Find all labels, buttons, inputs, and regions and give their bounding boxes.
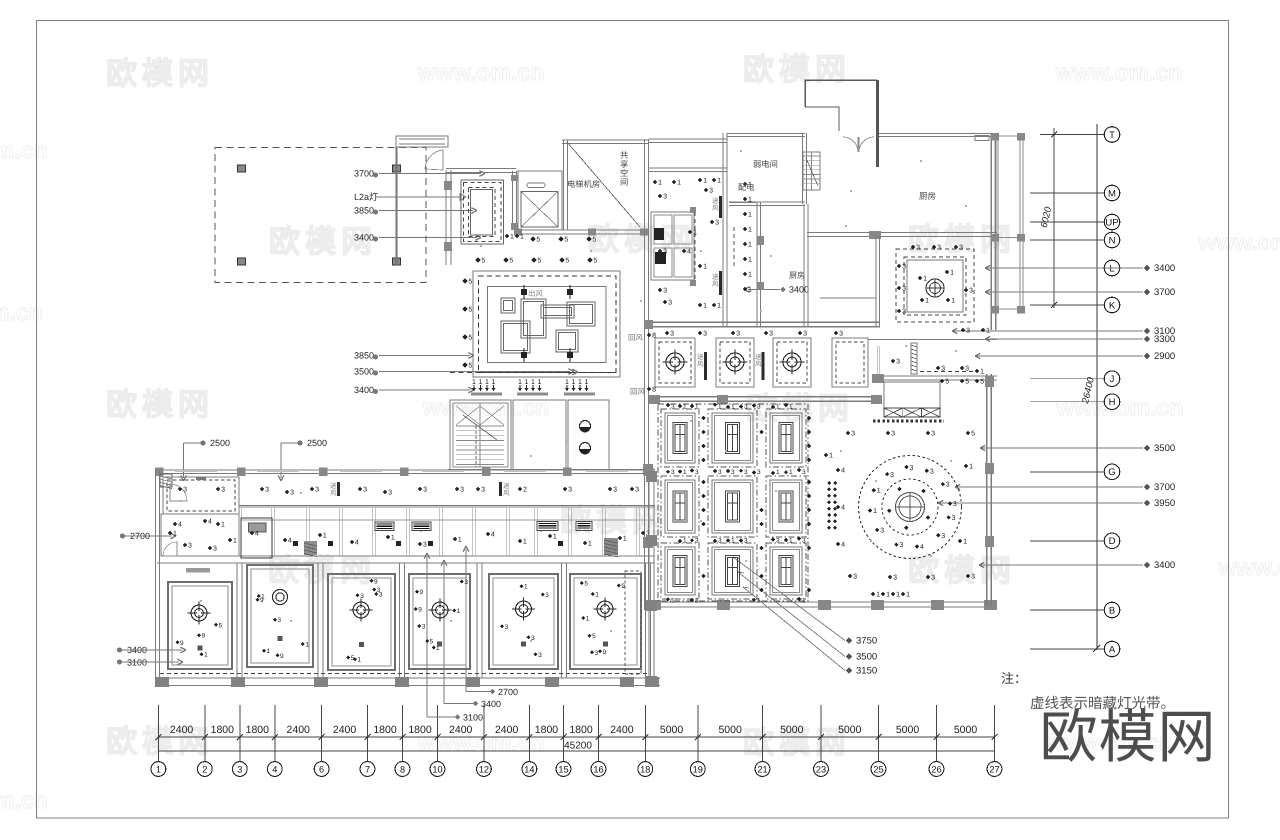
svg-text:3850: 3850 — [354, 206, 374, 216]
svg-text:3: 3 — [802, 469, 806, 476]
svg-text:3: 3 — [899, 542, 903, 549]
svg-text:1: 1 — [671, 598, 675, 605]
svg-text:3: 3 — [545, 592, 549, 599]
svg-text:5: 5 — [468, 279, 472, 286]
svg-text:1: 1 — [472, 379, 476, 386]
arrows column — [827, 481, 831, 485]
svg-text:UP: UP — [1105, 217, 1118, 228]
svg-text:1800: 1800 — [408, 724, 432, 736]
svg-text:3: 3 — [930, 468, 934, 475]
svg-text:1: 1 — [789, 404, 793, 411]
svg-text:9: 9 — [418, 607, 422, 614]
svg-text:B: B — [1109, 605, 1115, 616]
弱电间 block — [727, 133, 805, 135]
svg-text:3: 3 — [703, 331, 707, 338]
svg-text:5: 5 — [468, 363, 472, 370]
svg-text:3: 3 — [744, 404, 748, 411]
svg-text:5: 5 — [537, 258, 541, 265]
svg-text:9: 9 — [260, 597, 264, 604]
hatched corner block — [160, 474, 172, 487]
svg-text:5: 5 — [536, 237, 540, 244]
svg-text:1: 1 — [829, 453, 833, 460]
svg-text:3: 3 — [953, 501, 957, 508]
svg-text:9: 9 — [280, 653, 284, 660]
svg-text:3: 3 — [422, 624, 426, 631]
right rooms A/B — [868, 339, 997, 341]
svg-text:3: 3 — [802, 538, 806, 545]
wing E wall to banquet — [648, 471, 650, 686]
svg-text:1: 1 — [588, 541, 592, 548]
svg-text:1: 1 — [748, 287, 752, 294]
corridor E of service — [756, 202, 758, 326]
svg-text:出风: 出风 — [528, 289, 543, 298]
double swing door — [843, 137, 858, 152]
svg-text:间: 间 — [620, 177, 628, 187]
svg-text:3: 3 — [769, 331, 773, 338]
banquet leaders 3750/3500/3150 — [733, 557, 845, 641]
svg-text:1: 1 — [703, 178, 707, 185]
svg-text:8: 8 — [652, 333, 656, 340]
svg-text:风: 风 — [503, 489, 510, 497]
svg-text:3: 3 — [635, 487, 639, 494]
right wall of kitchen block — [990, 133, 992, 330]
svg-text:1: 1 — [553, 534, 557, 541]
svg-text:3: 3 — [423, 487, 427, 494]
svg-text:3: 3 — [668, 300, 672, 307]
svg-text:3: 3 — [671, 404, 675, 411]
svg-text:3: 3 — [971, 574, 975, 581]
svg-text:1: 1 — [789, 538, 793, 545]
svg-text:2400: 2400 — [333, 724, 357, 736]
svg-text:om.cn: om.cn — [0, 137, 48, 163]
wing bottom wall — [155, 677, 660, 679]
svg-text:3: 3 — [290, 490, 294, 497]
svg-text:3: 3 — [880, 528, 884, 535]
svg-text:3: 3 — [237, 764, 242, 774]
svg-text:1: 1 — [233, 538, 237, 545]
fan room — [896, 249, 974, 322]
svg-text:1: 1 — [524, 584, 528, 591]
svg-text:1800: 1800 — [569, 724, 593, 736]
svg-text:3: 3 — [736, 331, 740, 338]
svg-text:5: 5 — [468, 335, 472, 342]
svg-text:5: 5 — [965, 379, 969, 386]
svg-text:4: 4 — [208, 519, 212, 526]
svg-text:3850: 3850 — [354, 351, 374, 361]
svg-text:1: 1 — [204, 652, 208, 659]
wall below upper block — [514, 229, 648, 231]
svg-text:16: 16 — [593, 764, 603, 774]
svg-text:4: 4 — [272, 764, 277, 774]
svg-text:1800: 1800 — [535, 724, 559, 736]
svg-text:3: 3 — [890, 472, 894, 479]
svg-text:25: 25 — [873, 764, 883, 774]
svg-text:3: 3 — [931, 575, 935, 582]
trellis recess — [884, 382, 940, 417]
wall under stair block — [448, 469, 655, 471]
right colonnade — [994, 133, 996, 313]
svg-text:3: 3 — [902, 309, 906, 316]
svg-text:1: 1 — [776, 469, 780, 476]
svg-text:1: 1 — [757, 598, 761, 605]
svg-text:21: 21 — [757, 764, 767, 774]
wing top wall — [155, 469, 655, 471]
svg-text:5: 5 — [565, 258, 569, 265]
svg-text:1: 1 — [950, 270, 954, 277]
svg-text:5000: 5000 — [896, 724, 920, 736]
svg-text:1: 1 — [776, 404, 780, 411]
svg-text:5: 5 — [564, 237, 568, 244]
svg-text:5: 5 — [481, 258, 485, 265]
svg-text:T: T — [1109, 130, 1115, 141]
svg-text:3: 3 — [718, 538, 722, 545]
svg-text:3: 3 — [531, 635, 535, 642]
svg-text:3700: 3700 — [354, 169, 374, 179]
svg-text:1: 1 — [391, 535, 395, 542]
svg-text:1: 1 — [906, 592, 910, 599]
service marks — [653, 180, 658, 185]
svg-text:1: 1 — [156, 764, 161, 774]
svg-text:1: 1 — [683, 469, 687, 476]
svg-text:3: 3 — [851, 431, 855, 438]
svg-text:3: 3 — [594, 650, 598, 657]
svg-text:欧模网: 欧模网 — [106, 724, 214, 759]
rooms row above banquet — [655, 338, 695, 387]
svg-text:5: 5 — [592, 237, 596, 244]
svg-text:3: 3 — [896, 359, 900, 366]
service zone walls — [644, 139, 646, 610]
svg-text:1: 1 — [357, 657, 361, 664]
svg-text:5: 5 — [219, 622, 223, 629]
svg-text:3: 3 — [663, 249, 667, 256]
svg-text:1: 1 — [221, 522, 225, 529]
svg-text:1: 1 — [658, 180, 662, 187]
svg-text:4: 4 — [255, 531, 259, 538]
svg-text:5: 5 — [593, 258, 597, 265]
svg-text:H: H — [1109, 397, 1116, 408]
svg-text:欧模网: 欧模网 — [106, 387, 214, 422]
svg-text:3: 3 — [188, 543, 192, 550]
svg-text:欧模网: 欧模网 — [588, 222, 696, 257]
svg-text:9: 9 — [621, 583, 625, 590]
svg-text:2: 2 — [523, 487, 527, 494]
maze +5 marks — [462, 278, 467, 283]
svg-text:3: 3 — [265, 487, 269, 494]
svg-text:1: 1 — [436, 645, 440, 652]
svg-text:G: G — [1108, 467, 1115, 478]
upper block left wall — [445, 170, 447, 265]
svg-text:3: 3 — [969, 288, 973, 295]
svg-text:1: 1 — [963, 539, 967, 546]
svg-text:3: 3 — [731, 469, 735, 476]
bedroom gray band — [186, 568, 210, 573]
svg-text:4: 4 — [841, 505, 845, 512]
svg-text:欧模网: 欧模网 — [560, 503, 668, 538]
kitchen bottom wall — [807, 232, 997, 234]
staging dashed rect — [215, 148, 426, 283]
svg-text:3: 3 — [613, 487, 617, 494]
svg-text:欧模网: 欧模网 — [743, 52, 851, 87]
svg-text:9: 9 — [374, 578, 378, 585]
VIP room nested ceiling — [461, 180, 504, 244]
svg-text:7: 7 — [365, 764, 370, 774]
svg-text:1: 1 — [457, 608, 461, 615]
svg-text:2700: 2700 — [498, 687, 518, 697]
svg-text:1: 1 — [731, 538, 735, 545]
svg-text:www.om.cn: www.om.cn — [422, 394, 550, 420]
svg-text:3: 3 — [538, 652, 542, 659]
svg-text:1: 1 — [969, 464, 973, 471]
dotted band — [873, 419, 944, 422]
svg-text:1: 1 — [923, 276, 927, 283]
svg-text:3: 3 — [388, 490, 392, 497]
svg-text:15: 15 — [558, 764, 568, 774]
banquet south wall — [649, 601, 995, 603]
coffer area outline — [658, 404, 808, 601]
svg-text:1: 1 — [510, 234, 514, 241]
svg-text:3: 3 — [966, 328, 970, 335]
svg-text:配电: 配电 — [738, 182, 755, 192]
svg-text:4: 4 — [491, 532, 495, 539]
svg-text:4: 4 — [687, 249, 691, 256]
svg-text:送: 送 — [755, 353, 762, 361]
service shaft gray box — [241, 518, 272, 558]
svg-text:欧模网: 欧模网 — [268, 553, 376, 588]
bathroom band — [239, 506, 655, 508]
svg-text:回风: 回风 — [630, 387, 645, 396]
svg-text:5: 5 — [509, 258, 513, 265]
faint ceiling dots — [740, 150, 742, 152]
svg-text:1: 1 — [479, 379, 483, 386]
maze room ceiling feature — [473, 271, 620, 377]
svg-text:3150: 3150 — [856, 666, 877, 677]
svg-text:1: 1 — [586, 615, 590, 622]
svg-text:3: 3 — [481, 487, 485, 494]
right side elevation leaders — [985, 267, 1143, 269]
svg-text:3: 3 — [952, 515, 956, 522]
banquet left wall blocks — [643, 464, 653, 475]
svg-text:1: 1 — [520, 234, 524, 241]
svg-text:3: 3 — [423, 542, 427, 549]
svg-text:5: 5 — [945, 379, 949, 386]
svg-text:1: 1 — [980, 369, 984, 376]
svg-text:1: 1 — [623, 536, 627, 543]
svg-text:1: 1 — [695, 404, 699, 411]
svg-text:3100: 3100 — [463, 713, 483, 723]
row grilles — [704, 352, 707, 380]
svg-text:3: 3 — [937, 245, 941, 252]
svg-text:1: 1 — [718, 404, 722, 411]
bathroom units walls h — [241, 519, 655, 521]
svg-text:3: 3 — [941, 366, 945, 373]
svg-text:5: 5 — [351, 655, 355, 662]
svg-text:3: 3 — [315, 487, 319, 494]
svg-text:5: 5 — [971, 431, 975, 438]
svg-text:3: 3 — [363, 487, 367, 494]
wing bottom dashed light line — [160, 673, 650, 675]
bedroom band top wall — [157, 562, 655, 564]
svg-text:送: 送 — [712, 197, 719, 205]
svg-text:www.om.cn: www.om.cn — [1055, 59, 1183, 85]
svg-text:5: 5 — [592, 633, 596, 640]
bath grilles — [375, 522, 394, 531]
svg-text:送: 送 — [503, 482, 510, 490]
bottom grid bubbles — [151, 762, 1002, 777]
svg-text:3: 3 — [464, 579, 468, 586]
svg-text:5000: 5000 — [660, 724, 684, 736]
shared space diagonal — [567, 142, 640, 227]
svg-text:欧模网: 欧模网 — [908, 553, 1016, 588]
svg-text:1: 1 — [578, 379, 582, 386]
svg-text:3: 3 — [744, 538, 748, 545]
svg-text:5000: 5000 — [954, 724, 978, 736]
svg-text:3: 3 — [893, 575, 897, 582]
svg-text:3700: 3700 — [1154, 287, 1175, 298]
svg-text:9: 9 — [201, 633, 205, 640]
svg-text:1: 1 — [717, 178, 721, 185]
svg-text:3: 3 — [663, 194, 667, 201]
svg-text:1: 1 — [683, 404, 687, 411]
upper block top walls — [446, 168, 516, 170]
corridor grilles — [337, 482, 340, 496]
svg-text:5: 5 — [584, 581, 588, 588]
svg-text:1: 1 — [731, 404, 735, 411]
svg-text:3: 3 — [931, 431, 935, 438]
svg-text:弱电间: 弱电间 — [753, 159, 778, 169]
svg-text:3100: 3100 — [127, 658, 147, 668]
banquet scattered marks — [846, 431, 851, 436]
svg-text:厨房: 厨房 — [919, 191, 936, 201]
service bottom wall — [649, 321, 880, 323]
svg-text:欧模网: 欧模网 — [908, 222, 1016, 257]
svg-text:10: 10 — [432, 764, 442, 774]
svg-text:1: 1 — [748, 272, 752, 279]
svg-text:1: 1 — [748, 257, 752, 264]
svg-text:3: 3 — [776, 538, 780, 545]
svg-text:2400: 2400 — [170, 724, 194, 736]
svg-text:3: 3 — [695, 598, 699, 605]
svg-text:1: 1 — [595, 591, 599, 598]
svg-text:2500: 2500 — [210, 438, 230, 448]
svg-text:1800: 1800 — [373, 724, 397, 736]
svg-text:3: 3 — [695, 538, 699, 545]
svg-text:3400: 3400 — [354, 233, 374, 243]
marks right of colonnade 5s — [940, 379, 945, 384]
svg-text:3: 3 — [670, 331, 674, 338]
svg-text:om.cn: om.cn — [0, 787, 48, 813]
elevator lobby — [513, 400, 566, 470]
svg-text:厨房: 厨房 — [789, 271, 805, 280]
wall x=806 full — [803, 204, 805, 326]
svg-text:1: 1 — [873, 508, 877, 515]
svg-text:风: 风 — [697, 360, 704, 368]
svg-text:1800: 1800 — [246, 724, 270, 736]
svg-text:3: 3 — [910, 465, 914, 472]
svg-text:送: 送 — [330, 482, 337, 490]
svg-text:1: 1 — [717, 303, 721, 310]
svg-text:3: 3 — [757, 469, 761, 476]
corridor wall bottom — [239, 505, 655, 507]
svg-text:1: 1 — [951, 298, 955, 305]
svg-text:3: 3 — [221, 487, 225, 494]
svg-text:3: 3 — [277, 617, 281, 624]
svg-text:3: 3 — [941, 533, 945, 540]
svg-text:J: J — [1110, 374, 1115, 385]
svg-text:3: 3 — [803, 331, 807, 338]
maze bottom dashed + arrow — [450, 372, 620, 374]
banquet right wall — [986, 374, 988, 606]
svg-text:45200: 45200 — [564, 741, 592, 752]
svg-text:2400: 2400 — [449, 724, 473, 736]
svg-text:3: 3 — [715, 220, 719, 227]
svg-text:2400: 2400 — [610, 724, 634, 736]
fan room marks — [911, 245, 916, 250]
canopy top-left — [396, 136, 448, 147]
wall between VIP and elevator — [512, 171, 514, 230]
svg-text:12: 12 — [479, 764, 489, 774]
svg-text:1: 1 — [523, 539, 527, 546]
svg-text:风: 风 — [755, 360, 762, 368]
svg-text:D: D — [1109, 536, 1116, 547]
small stair — [803, 152, 820, 190]
svg-text:K: K — [1109, 300, 1116, 311]
svg-text:N: N — [1109, 235, 1116, 246]
svg-text:9: 9 — [419, 589, 423, 596]
svg-text:www.om.cn: www.om.cn — [1218, 554, 1280, 580]
svg-text:1: 1 — [896, 592, 900, 599]
svg-text:1: 1 — [538, 379, 542, 386]
svg-text:送: 送 — [712, 273, 719, 281]
svg-text:3500: 3500 — [354, 367, 374, 377]
svg-text:3750: 3750 — [856, 636, 877, 647]
svg-text:1: 1 — [789, 469, 793, 476]
circle marks — [946, 515, 950, 519]
svg-text:3300: 3300 — [1154, 334, 1175, 345]
svg-text:3500: 3500 — [1154, 443, 1175, 454]
wing W lower room — [161, 514, 239, 556]
svg-text:2400: 2400 — [495, 724, 519, 736]
svg-text:1: 1 — [876, 592, 880, 599]
svg-text:1: 1 — [693, 230, 697, 237]
svg-text:5: 5 — [468, 307, 472, 314]
right vertical dim line 6020 — [1053, 128, 1055, 308]
svg-text:3: 3 — [671, 469, 675, 476]
svg-text:3400: 3400 — [481, 699, 501, 709]
svg-text:14: 14 — [524, 764, 534, 774]
svg-text:1: 1 — [525, 379, 529, 386]
svg-text:1: 1 — [492, 379, 496, 386]
svg-text:3: 3 — [718, 469, 722, 476]
svg-text:23: 23 — [816, 764, 826, 774]
svg-text:1: 1 — [458, 537, 462, 544]
svg-text:4: 4 — [178, 522, 182, 529]
svg-text:2900: 2900 — [1154, 351, 1175, 362]
svg-text:3400: 3400 — [1154, 263, 1175, 274]
svg-text:3: 3 — [568, 487, 572, 494]
svg-text:5000: 5000 — [838, 724, 862, 736]
bedroom dividers — [236, 563, 238, 678]
svg-text:19: 19 — [693, 764, 703, 774]
svg-text:1: 1 — [572, 379, 576, 386]
svg-text:1800: 1800 — [211, 724, 235, 736]
svg-text:3: 3 — [213, 546, 217, 553]
svg-text:欧模网: 欧模网 — [1039, 705, 1216, 770]
room below kitchen wall — [820, 297, 876, 299]
svg-text:1: 1 — [748, 227, 752, 234]
svg-text:3: 3 — [709, 188, 713, 195]
svg-text:2500: 2500 — [307, 438, 327, 448]
svg-text:电梯机房: 电梯机房 — [567, 179, 600, 189]
